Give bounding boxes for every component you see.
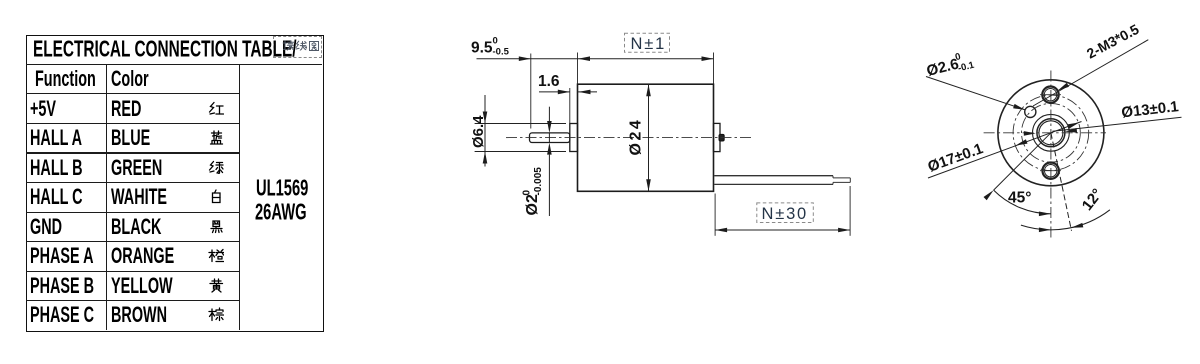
svg-text:N±30: N±30 [762,205,809,223]
rear shaft tip [719,134,724,141]
table vertical divider col2/col3 [239,64,240,330]
svg-text:Ø17±0.1: Ø17±0.1 [926,140,986,176]
leader Ø2.6 [926,77,1025,110]
svg-text:0: 0 [522,190,533,196]
svg-text:2-M3*0.5: 2-M3*0.5 [1084,21,1142,62]
arrow Ø24 top [646,84,651,96]
extension line body left top [577,53,579,85]
hub circle inner [1039,121,1063,145]
arrow Ø6.4 top [483,112,488,124]
data rows col1 [30,96,70,122]
svg-text:Ø2: Ø2 [524,194,541,215]
12 deg dashed line [1051,133,1072,231]
arrow 9.5/N1 at body left [578,56,590,61]
title chinese annotation dashed box [273,36,322,58]
svg-text:Ø24: Ø24 [628,118,645,156]
leader Ø13 [1052,117,1181,131]
extension line boss left [569,88,571,124]
arrow 12 at line [1071,223,1083,228]
arrow 2-M3 [1058,83,1070,91]
hanzi hong [210,102,215,112]
front boss [570,124,578,152]
text Ø2 0/-0.005 rotated [522,167,545,216]
dim line N±30 [715,229,850,231]
hanzi tu [309,42,318,51]
bolt circle Ø13 [1022,103,1081,162]
motor body (side view) [578,84,714,191]
hanzi lv [210,161,214,170]
UL1569 26AWG merged cell [256,175,338,202]
dashed box N±30 [757,203,814,223]
ext lines Ø6.4 [475,123,566,125]
arrow N30 right [838,228,850,233]
data rows col2 english [111,96,157,122]
arrow Ø17 upper [1067,122,1079,128]
hub circle outer [1037,119,1065,147]
hanzi xian [296,41,299,47]
svg-text:-0.005: -0.005 [533,167,544,196]
hole Ø2.6 [1025,106,1036,117]
arrow 9.5 left [519,56,531,61]
table outer border [26,35,324,332]
svg-text:-0.5: -0.5 [493,47,510,58]
hanzi jie [283,42,286,45]
table vertical divider col1/col2 [106,64,107,330]
dim Ø2 vertical line [548,107,550,121]
table horizontal lines [26,64,322,65]
arrow 1.6 left [558,90,570,95]
side view centerline [506,137,752,139]
shaft [530,133,570,143]
arrow Ø6.4 bottom [483,152,488,164]
svg-text:N±1: N±1 [631,35,667,53]
dim Ø6.4 vertical line [484,95,486,167]
rear boss [714,123,721,151]
ext lines N±30 [714,194,716,236]
wire ribbon [714,175,833,177]
arrow Ø13 [1065,128,1077,133]
arrow N1 right [702,56,714,61]
arrow N30 left [715,228,727,233]
end view vertical centerline [1050,71,1052,240]
extension line body right top [713,53,715,85]
boss circle [1033,114,1070,151]
dim Ø24 line [648,84,650,191]
end view outer circle Ø24 [998,80,1104,186]
hanzi huang [212,279,221,282]
hanzi hei [213,221,220,227]
45 deg arc [994,190,1051,214]
table title [33,36,427,63]
wire stripped tip [832,176,834,178]
arrow hub left [1024,131,1036,136]
arrow Ø17 lower [1015,139,1027,145]
leader 2-M3*0.5 [1033,40,1148,106]
text Ø2.6 0/-0.1 rotated [924,48,976,81]
45 deg line [994,133,1051,190]
end view horizontal centerline [984,132,1106,134]
arrow 12 at vertical [1039,228,1051,233]
svg-text:12°: 12° [1079,186,1106,214]
hanzi bai [215,190,217,193]
hanzi cheng [211,250,214,262]
dim line 9.5 and N±1 [477,58,714,60]
hanzi zong [211,309,214,321]
arrow 45 upper [984,190,994,200]
M3 hole top [1042,87,1058,103]
dim line 1.6 [539,91,570,93]
svg-text:1.6: 1.6 [538,73,560,90]
arrow Ø2 bottom [547,143,552,155]
12 deg arc [1021,210,1110,230]
bolt circle Ø17 [1013,95,1089,171]
arrow Ø2.6 [1013,104,1025,110]
leader Ø17 [928,122,1082,179]
M3 hole bottom [1043,163,1059,179]
header row [35,66,128,92]
arrow Ø24 bottom [646,179,651,191]
svg-text:0: 0 [493,36,498,47]
hanzi lan [212,132,222,135]
svg-text:Ø6.4: Ø6.4 [470,115,487,148]
CJK glyphs placeholder [208,101,224,117]
arrow 1.6 right [579,90,591,95]
svg-text:9.5: 9.5 [471,40,493,57]
extension line shaft end [530,54,532,129]
svg-text:45°: 45° [1008,190,1031,207]
arrow Ø2 top [547,121,552,133]
dashed box N±1 [625,33,670,52]
svg-text:Ø13±0.1: Ø13±0.1 [1121,98,1180,121]
arrow 45 lower [1039,212,1051,217]
